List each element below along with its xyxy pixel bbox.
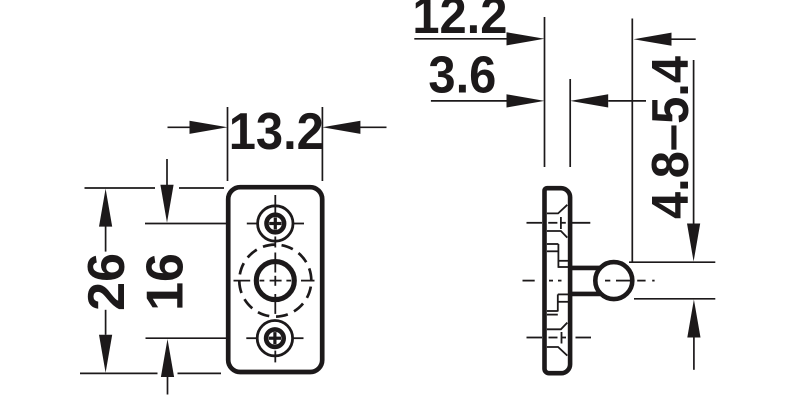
- middle bore step lines lower: [547, 294, 569, 314]
- ball: [595, 262, 632, 299]
- svg-text:4.8–5.4: 4.8–5.4: [641, 56, 700, 219]
- dim 26 line and arrows: [99, 189, 112, 227]
- plate outline front: [228, 187, 322, 372]
- top screw head annulus: [267, 215, 285, 233]
- extension line plate bottom: [80, 372, 221, 374]
- extension line ball bottom: [634, 298, 715, 300]
- svg-text:12.2: 12.2: [412, 0, 507, 44]
- dim 16 top arrow: [166, 159, 168, 186]
- center hole crosshair: [234, 280, 315, 282]
- center hole dashed circle: [239, 245, 311, 317]
- dim 12.2 right arrow: [634, 33, 672, 46]
- extension line top hole center: [145, 223, 229, 225]
- dim 3.6 right arrow: [570, 94, 608, 107]
- top hole centerline side: [527, 217, 591, 229]
- top hole countersink section lines: [547, 205, 567, 238]
- center hole centerline side: [523, 280, 655, 282]
- svg-text:3.6: 3.6: [428, 45, 496, 104]
- dim 16 bottom arrow: [161, 339, 174, 377]
- dim 4.8-5.4 line with down arrow: [693, 60, 695, 224]
- vertical centerline through holes: [274, 195, 276, 362]
- top screw hole crosshair: [247, 223, 304, 225]
- bottom phillips cross: [269, 332, 281, 344]
- extension line plate left face: [544, 17, 546, 167]
- bottom screw head annulus: [266, 329, 284, 347]
- dim 4.8-5.4 up arrow: [687, 300, 700, 338]
- center hole ring: [256, 262, 294, 300]
- extension line ball top: [629, 261, 715, 263]
- svg-text:16: 16: [137, 253, 195, 311]
- dim 13.2 extension line left: [227, 107, 229, 181]
- dim 3.6 line left with arrow: [431, 100, 507, 102]
- bottom hole centerline side: [527, 332, 592, 344]
- bottom hole countersink section lines: [547, 323, 567, 356]
- top screw hole outer circle: [258, 206, 293, 241]
- ball stud stem: [571, 268, 601, 294]
- svg-text:13.2: 13.2: [229, 102, 324, 161]
- dim 13.2 right arrow: [358, 126, 387, 128]
- top phillips cross: [269, 217, 281, 229]
- extension line ball tangent: [631, 19, 633, 262]
- bottom screw hole outer circle: [257, 321, 292, 356]
- plate outline side: [545, 188, 571, 373]
- dim 13.2 left arrow: [168, 126, 193, 128]
- dim 12.2 line left with arrow: [414, 38, 506, 40]
- dim 13.2 extension line right: [321, 107, 323, 181]
- extension line plate right face: [569, 79, 571, 167]
- svg-text:26: 26: [78, 253, 136, 311]
- bottom screw hole crosshair: [246, 337, 303, 339]
- extension line plate top: [85, 187, 225, 189]
- middle bore step lines upper: [547, 244, 569, 268]
- extension line bottom hole center: [146, 337, 231, 339]
